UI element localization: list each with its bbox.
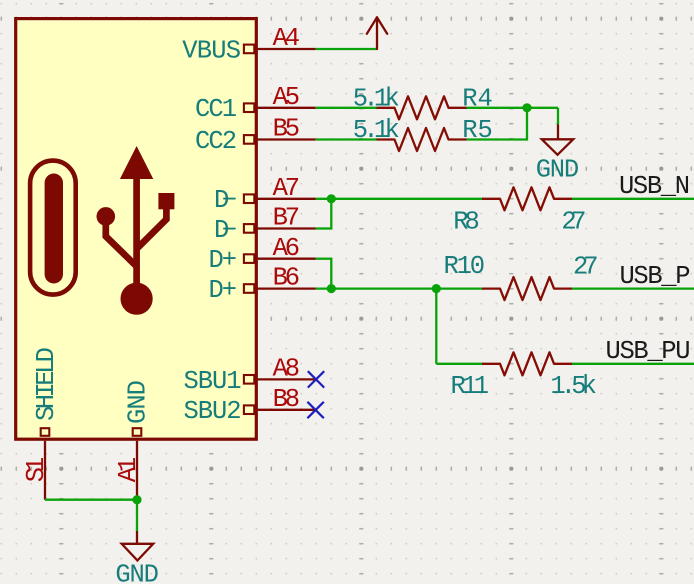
pin D- A7 — [244, 194, 316, 203]
pin D+ B6 — [244, 284, 316, 293]
svg-text:A1: A1 — [114, 457, 143, 483]
wire R11 to USB_PU — [572, 363, 694, 365]
pin GND A1 — [133, 428, 142, 500]
wire R8 to USB_N — [572, 198, 694, 200]
wires (green) — [45, 49, 694, 531]
svg-text:A5: A5 — [273, 83, 300, 112]
pin D- B7 — [244, 224, 316, 233]
svg-text:B6: B6 — [273, 264, 300, 293]
junction at A7/B7 node — [327, 194, 336, 203]
wire B6 to R10 — [316, 287, 484, 289]
svg-text:B7: B7 — [273, 204, 300, 233]
svg-text:R5: R5 — [462, 116, 493, 145]
resistor R4 — [377, 96, 467, 119]
wire A6 down to B6 — [330, 258, 332, 289]
svg-text:D−: D− — [214, 216, 237, 245]
svg-text:USB_P: USB_P — [620, 262, 691, 291]
wire A7 to R8 — [316, 198, 484, 200]
pin D+ A6 — [244, 254, 316, 263]
pin CC2 B5 — [244, 135, 316, 144]
pin SBU2 B8 — [244, 405, 316, 414]
svg-text:1.5k: 1.5k — [550, 372, 597, 401]
wire R10 to USB_P — [572, 287, 694, 289]
wire R5 to vertical — [467, 138, 528, 140]
pin VBUS A4 — [244, 45, 316, 54]
wire S1 to A1 junction — [45, 499, 137, 501]
wire B7 up to A7 — [330, 199, 332, 230]
svg-text:D+: D+ — [209, 276, 238, 305]
svg-text:A8: A8 — [273, 354, 300, 383]
svg-text:D−: D− — [214, 186, 237, 215]
resistor labels — [353, 85, 599, 401]
wire down to GND symbol — [557, 108, 559, 125]
svg-text:R11: R11 — [451, 372, 490, 401]
svg-text:R8: R8 — [453, 208, 480, 237]
svg-text:A6: A6 — [273, 234, 300, 263]
svg-text:27: 27 — [573, 253, 599, 282]
resistor R5 — [377, 128, 467, 151]
svg-text:GND: GND — [123, 380, 152, 424]
power symbol GND (bottom) — [122, 531, 154, 561]
svg-text:D+: D+ — [209, 246, 238, 275]
resistor R8 — [482, 187, 572, 210]
USB trident icon — [97, 146, 175, 315]
connector J body — [16, 19, 257, 440]
svg-text:5.1k: 5.1k — [353, 116, 400, 145]
svg-text:A4: A4 — [273, 24, 300, 53]
power symbol VBUS arrow — [367, 17, 387, 49]
wire CC2 to R5 — [316, 138, 377, 140]
svg-text:CC1: CC1 — [195, 95, 237, 124]
wire A6 right — [316, 258, 332, 260]
junction at S1/A1 GND node — [132, 495, 141, 504]
resistor R10 — [482, 277, 572, 300]
svg-text:A7: A7 — [273, 174, 300, 203]
svg-text:SBU1: SBU1 — [184, 367, 242, 396]
svg-text:R10: R10 — [444, 252, 486, 281]
wire R4 to GND junction — [467, 107, 559, 109]
svg-text:VBUS: VBUS — [182, 36, 241, 65]
wire B7 right — [316, 227, 332, 229]
svg-text:5.1k: 5.1k — [353, 85, 400, 114]
svg-text:S1: S1 — [22, 457, 51, 483]
pin SHIELD S1 — [41, 428, 50, 500]
wire vertical R5 up to junction — [526, 108, 528, 141]
resistor R11 — [482, 352, 572, 375]
pin SBU1 A8 — [244, 375, 316, 384]
wire VBUS to power arrow — [316, 48, 377, 50]
junction at R10/R11 node — [432, 284, 441, 293]
svg-text:SBU2: SBU2 — [184, 397, 242, 426]
USB receptacle icon — [30, 161, 76, 295]
pin CC1 A5 — [244, 103, 316, 112]
pin names (right side) — [182, 36, 241, 426]
wire to R11 — [436, 363, 483, 365]
junction at R4/R5 GND node — [522, 103, 531, 112]
svg-text:GND: GND — [536, 155, 580, 184]
wire junction down to GND symbol — [136, 500, 138, 531]
svg-text:R4: R4 — [462, 85, 493, 114]
svg-text:B5: B5 — [273, 115, 300, 144]
svg-text:USB_PU: USB_PU — [606, 337, 691, 366]
wire CC1 to R4 — [316, 107, 377, 109]
svg-text:SHIELD: SHIELD — [32, 347, 61, 421]
wire junction down to R11 row — [435, 289, 437, 364]
no-connect X on SBU1 — [308, 371, 324, 387]
svg-text:USB_N: USB_N — [619, 172, 690, 201]
power symbol GND (top) — [542, 125, 573, 155]
junction at A6/B6 node — [327, 284, 336, 293]
svg-text:B8: B8 — [273, 385, 300, 414]
svg-text:CC2: CC2 — [195, 127, 237, 156]
no-connect X on SBU2 — [307, 402, 323, 418]
svg-text:27: 27 — [561, 208, 586, 237]
svg-text:GND: GND — [115, 560, 158, 584]
